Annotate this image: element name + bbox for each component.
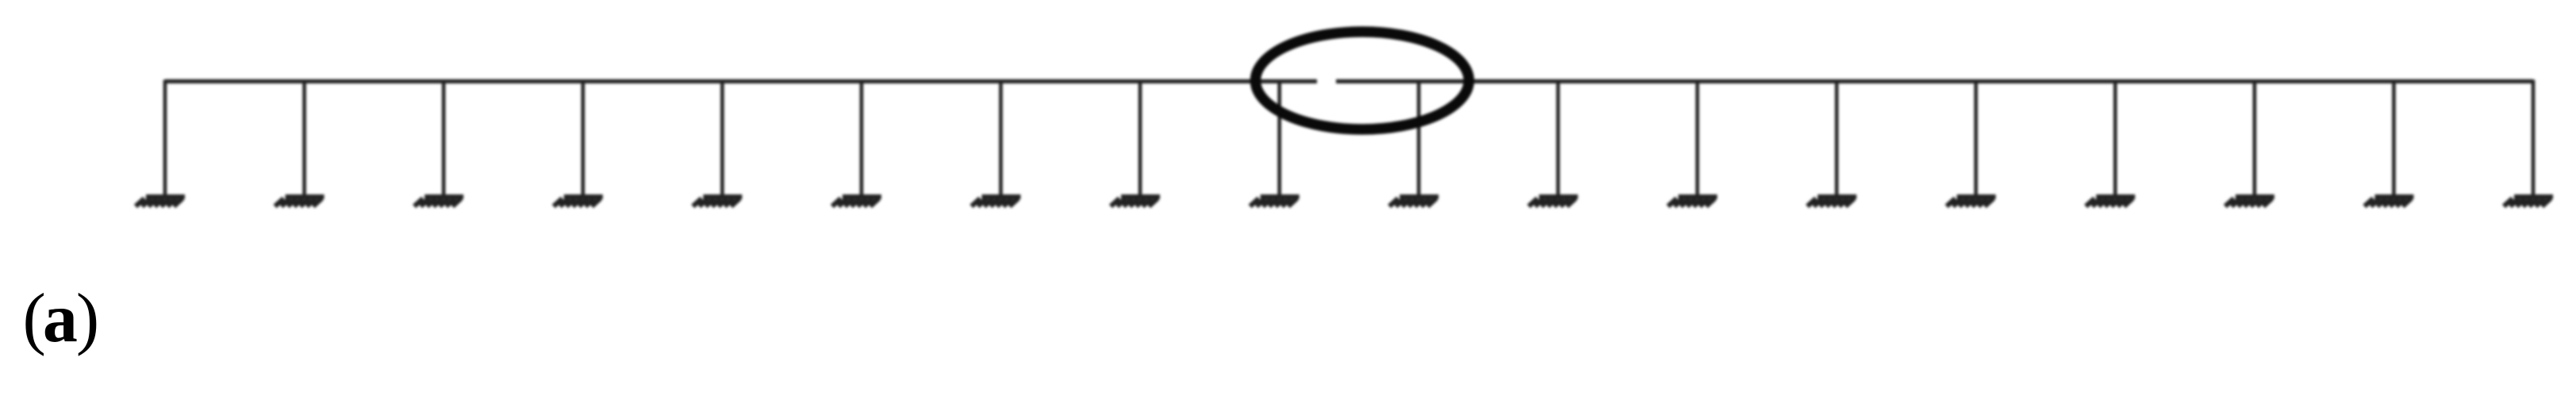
svg-text:(a): (a) (23, 280, 100, 357)
